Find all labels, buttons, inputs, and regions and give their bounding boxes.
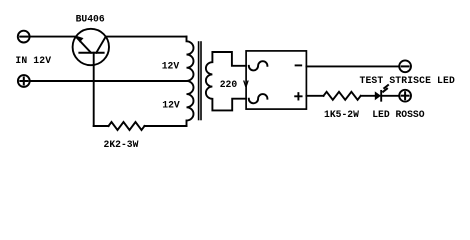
wire LED to OUT plus	[381, 95, 398, 97]
wire base to resistor	[94, 125, 109, 127]
svg-text:1K5-2W: 1K5-2W	[324, 109, 359, 120]
svg-text:220 V: 220 V	[220, 79, 249, 90]
terminal IN minus	[18, 31, 30, 43]
wire resistor to LED	[361, 95, 375, 97]
AC symbol upper	[249, 61, 268, 70]
LED D1	[375, 85, 388, 101]
bridge rectifier box	[246, 51, 306, 109]
resistor R2 1K5-2W	[324, 92, 361, 100]
svg-text:LED ROSSO: LED ROSSO	[372, 109, 425, 120]
terminal IN plus	[18, 75, 30, 87]
transformer core	[199, 42, 201, 120]
transformer T1 secondary winding and wires to bridge	[206, 52, 246, 110]
svg-text:BU406: BU406	[76, 14, 105, 25]
transformer T1 primary winding	[187, 37, 194, 126]
AC symbol lower	[249, 94, 268, 103]
minus sign in box	[296, 64, 302, 66]
transistor Q1 BU406	[73, 29, 109, 65]
wire resistor to transformer bottom	[145, 125, 187, 127]
svg-text:2K2-3W: 2K2-3W	[104, 139, 139, 150]
svg-text:12V: 12V	[162, 99, 180, 110]
wire collector to transformer top	[106, 36, 187, 38]
wire bridge minus output	[306, 65, 398, 67]
svg-text:TEST STRISCE LED: TEST STRISCE LED	[360, 75, 455, 86]
wire IN plus to transformer center tap	[29, 80, 186, 82]
resistor R1 2K2-3W	[109, 122, 145, 130]
svg-text:IN 12V: IN 12V	[15, 55, 51, 66]
wire emitter to IN minus	[29, 36, 76, 38]
wire base down	[93, 53, 95, 126]
plus sign in box	[295, 93, 301, 99]
wire bridge plus output	[306, 95, 323, 97]
terminal OUT minus	[399, 60, 411, 72]
svg-text:12V: 12V	[162, 61, 180, 72]
terminal OUT plus	[399, 90, 411, 102]
